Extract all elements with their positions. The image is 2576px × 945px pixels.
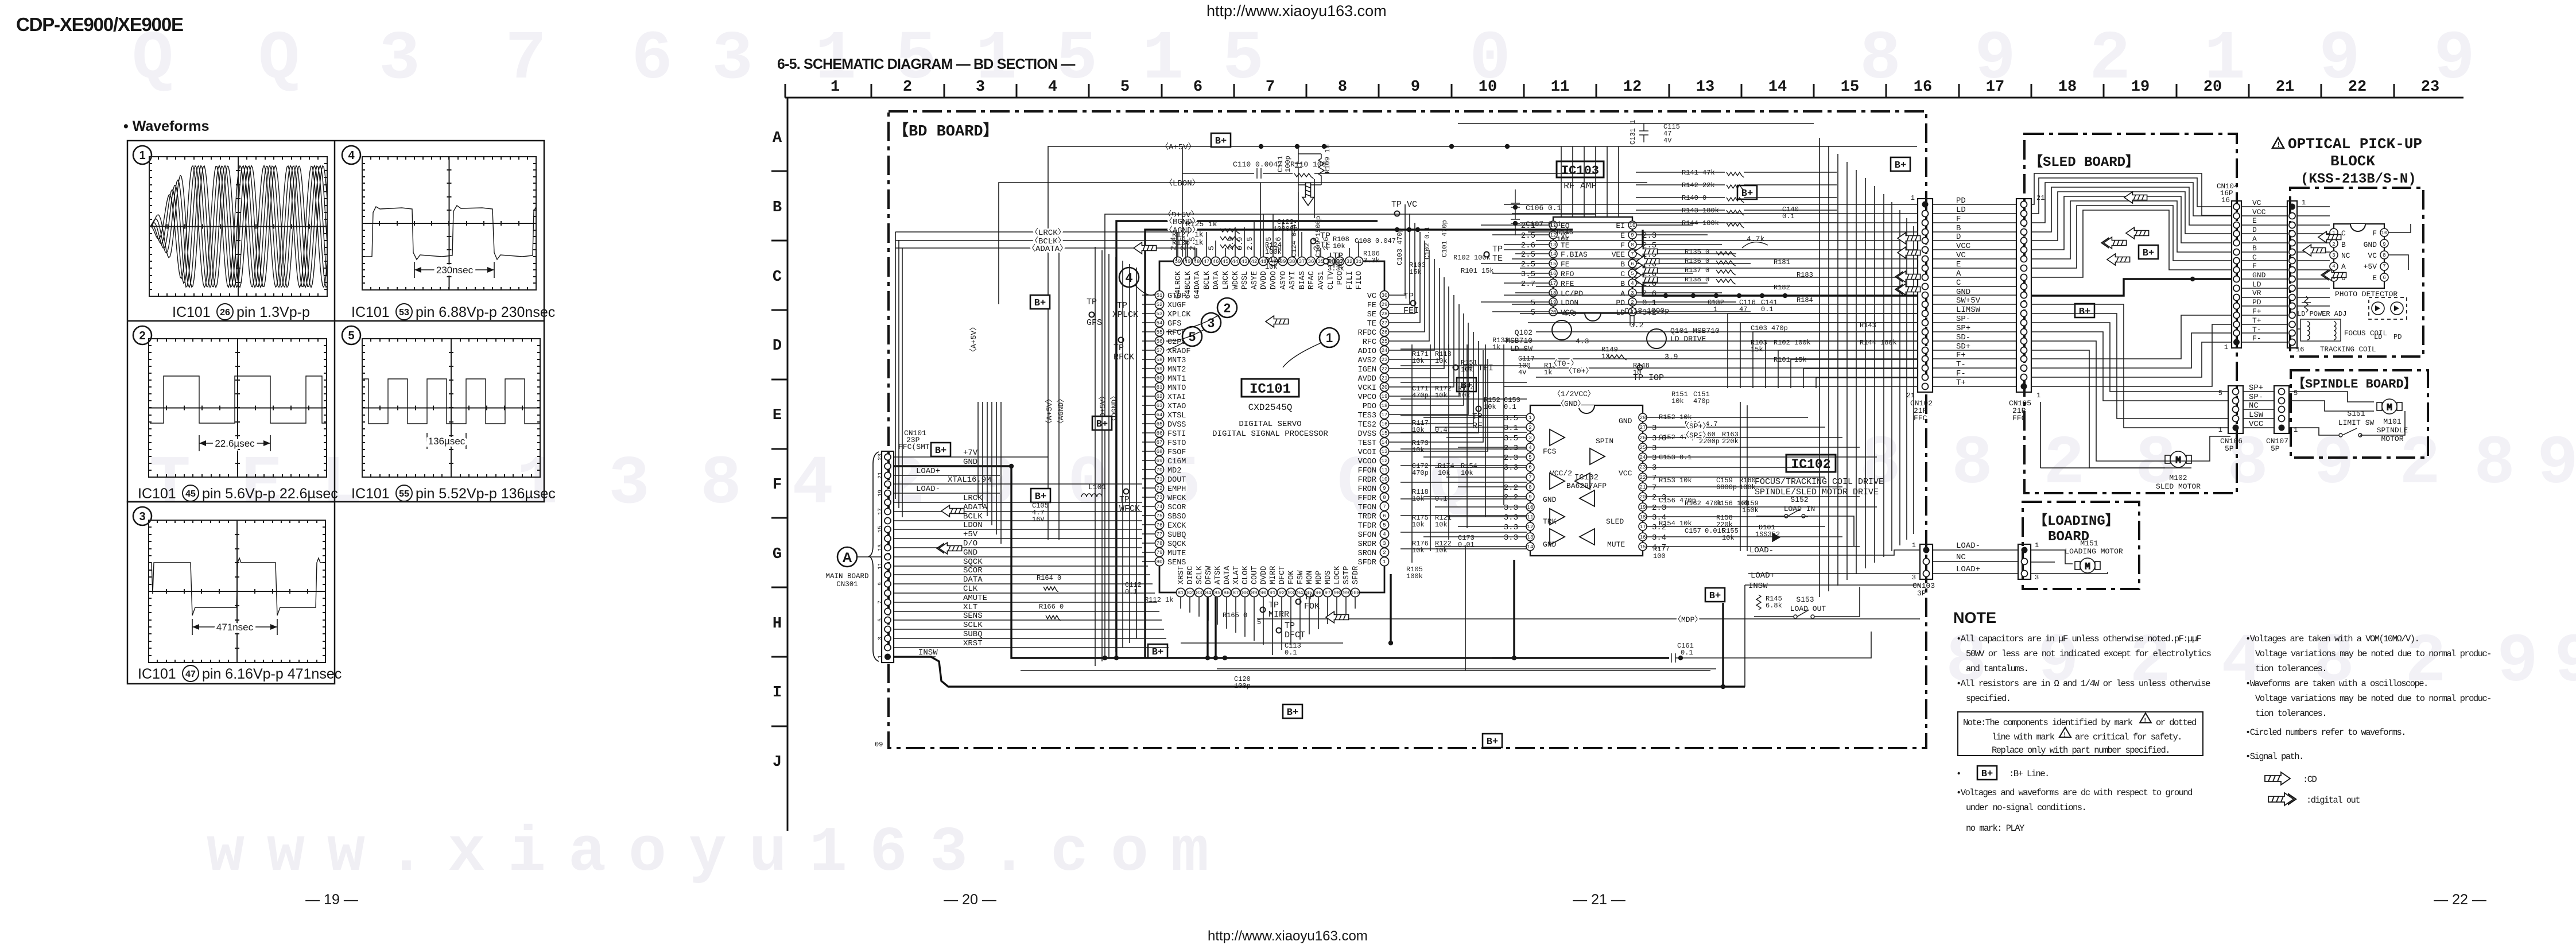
svg-text:50WV or less are not indicated: 50WV or less are not indicated except fo… <box>1966 649 2212 659</box>
svg-text:3: 3 <box>1528 435 1531 441</box>
svg-text:59: 59 <box>1157 366 1163 372</box>
svg-text:MON: MON <box>1306 571 1314 584</box>
svg-text:10k: 10k <box>1412 521 1425 529</box>
svg-text:B: B <box>773 199 782 216</box>
svg-text:11: 11 <box>1527 514 1534 520</box>
svg-text:21: 21 <box>878 472 884 479</box>
svg-text:BCLK: BCLK <box>1203 270 1212 289</box>
svg-text:14: 14 <box>1550 251 1557 257</box>
svg-text:SCLK: SCLK <box>1196 566 1204 584</box>
svg-text:R142 22k: R142 22k <box>1682 181 1715 189</box>
svg-text:17: 17 <box>1640 524 1646 530</box>
svg-text:o: o <box>629 818 666 889</box>
svg-text:1: 1 <box>2035 541 2039 549</box>
svg-text:SPINDLE/SLED MOTOR DRIVE: SPINDLE/SLED MOTOR DRIVE <box>1755 487 1879 497</box>
wire mesh: CN105 to sled (nested staircases) <box>2031 173 2232 468</box>
svg-text:70: 70 <box>1157 467 1163 473</box>
svg-text:TP: TP <box>1268 601 1279 610</box>
svg-text:SQCK: SQCK <box>963 557 983 567</box>
switch S151 limit <box>2339 428 2362 437</box>
svg-text:LOCK: LOCK <box>1333 566 1342 584</box>
svg-text:SQCK: SQCK <box>1167 540 1186 549</box>
svg-text:20: 20 <box>1550 309 1557 315</box>
svg-text:3.3: 3.3 <box>1504 504 1518 513</box>
svg-text:3: 3 <box>1383 541 1386 547</box>
svg-text:4: 4 <box>2332 264 2335 269</box>
svg-text:LOAD+: LOAD+ <box>1751 571 1775 580</box>
svg-text:3.3: 3.3 <box>1504 523 1518 532</box>
svg-text:SPINDLE: SPINDLE <box>2377 426 2408 435</box>
svg-text:91: 91 <box>1270 590 1276 596</box>
svg-text:E: E <box>1620 231 1625 240</box>
svg-text:10k: 10k <box>1671 397 1684 405</box>
svg-text:3.1: 3.1 <box>1504 424 1518 433</box>
svg-text:13: 13 <box>1527 535 1534 540</box>
svg-text:D: D <box>773 338 782 355</box>
svg-text:pin 5.6Vp-p 22.6µsec: pin 5.6Vp-p 22.6µsec <box>202 486 338 502</box>
svg-text:8: 8 <box>2383 253 2385 258</box>
svg-text:19: 19 <box>2131 79 2150 96</box>
svg-text:BCLK: BCLK <box>963 512 983 521</box>
svg-text:XTAI: XTAI <box>1167 393 1186 402</box>
svg-text:R109 1M: R109 1M <box>1324 145 1332 173</box>
svg-text:85: 85 <box>1215 590 1221 596</box>
svg-text:M101: M101 <box>2383 417 2401 426</box>
focus coil <box>2300 319 2341 341</box>
svg-text:A: A <box>1620 289 1625 298</box>
svg-text:47: 47 <box>1204 259 1210 265</box>
svg-text:WDCK: WDCK <box>1232 270 1240 289</box>
main board ref circle A <box>837 547 857 567</box>
svg-text:9: 9 <box>1631 233 1634 238</box>
svg-text:10k: 10k <box>1412 446 1425 454</box>
svg-text:92: 92 <box>1279 590 1285 596</box>
wire mesh: spindle wires <box>2289 392 2405 435</box>
svg-text:C131 1: C131 1 <box>1629 120 1637 145</box>
load wires <box>1745 550 1920 585</box>
svg-text:89: 89 <box>1251 590 1258 596</box>
svg-text:DATA: DATA <box>963 575 983 584</box>
svg-text:3.3: 3.3 <box>1504 533 1518 543</box>
svg-text:PCO: PCO <box>1336 271 1345 285</box>
svg-text:56: 56 <box>1157 339 1163 344</box>
svg-text:PDO: PDO <box>1363 402 1376 411</box>
svg-text:2.5: 2.5 <box>1246 237 1254 250</box>
svg-text:23: 23 <box>2421 79 2439 96</box>
svg-text:F: F <box>2252 262 2257 270</box>
svg-text:1: 1 <box>1326 331 1333 345</box>
svg-text:1: 1 <box>2218 426 2222 434</box>
svg-text:Q: Q <box>258 21 300 99</box>
svg-text:C102 0.1: C102 0.1 <box>1423 226 1431 260</box>
svg-text:4: 4 <box>348 149 355 162</box>
svg-text:VPCO: VPCO <box>1358 393 1376 402</box>
svg-text:100k: 100k <box>1739 483 1756 491</box>
svg-text:http://www.xiaoyu163.com: http://www.xiaoyu163.com <box>1206 2 1387 20</box>
svg-text:220k: 220k <box>1716 521 1733 529</box>
svg-text:2.3: 2.3 <box>1504 444 1518 453</box>
svg-text:9: 9 <box>2537 425 2576 504</box>
svg-text:LOAD OUT: LOAD OUT <box>1790 605 1826 613</box>
svg-text:•Signal path.: •Signal path. <box>2245 752 2303 762</box>
svg-text:R143: R143 <box>1860 322 1876 330</box>
svg-text:GND: GND <box>963 548 977 557</box>
svg-text:— 21 —: — 21 — <box>1573 892 1625 908</box>
svg-text:9: 9 <box>2497 623 2538 702</box>
svg-text:LD: LD <box>1616 308 1625 317</box>
wire mesh: CN101 rows <box>894 457 1169 657</box>
svg-text:13: 13 <box>878 544 884 551</box>
svg-text:AMUTE: AMUTE <box>963 594 987 603</box>
svg-text:6.8k: 6.8k <box>1766 602 1782 610</box>
svg-text:LDON: LDON <box>1561 299 1578 307</box>
svg-text:71: 71 <box>1157 477 1163 482</box>
diode D101 <box>1772 533 1780 542</box>
svg-text:47: 47 <box>185 669 196 679</box>
svg-text:2.4: 2.4 <box>1169 237 1178 250</box>
heavy routing lines <box>1722 603 1724 687</box>
svg-text:75: 75 <box>1157 513 1163 519</box>
svg-text:C108 0.047: C108 0.047 <box>1355 237 1396 245</box>
svg-text:10k: 10k <box>1435 357 1448 365</box>
waveform panel 2 <box>133 326 152 344</box>
transistor Q102 <box>1552 320 1572 340</box>
optical pick-up heading <box>2272 138 2284 148</box>
svg-text:2.5: 2.5 <box>1521 250 1535 260</box>
svg-text:1: 1 <box>1911 194 1915 202</box>
svg-text:T+: T+ <box>2252 316 2261 325</box>
svg-text:36: 36 <box>1308 259 1314 265</box>
B+ symbols <box>1211 133 1231 147</box>
svg-text:DVSS: DVSS <box>1167 421 1186 429</box>
svg-text:3: 3 <box>976 79 985 96</box>
svg-text:FSTO: FSTO <box>1167 439 1186 448</box>
svg-text:E: E <box>2372 274 2377 282</box>
svg-text:16: 16 <box>1550 271 1557 277</box>
svg-text:XRST: XRST <box>1177 566 1186 584</box>
svg-text:29: 29 <box>1382 302 1388 308</box>
svg-text:FOK: FOK <box>1287 570 1296 584</box>
svg-text:5: 5 <box>1120 79 1130 96</box>
svg-text:ATSK: ATSK <box>1214 566 1223 584</box>
svg-text:09: 09 <box>875 741 883 749</box>
svg-text:25: 25 <box>1640 445 1646 451</box>
svg-text:0.1: 0.1 <box>1782 212 1795 220</box>
svg-text:•All resistors are in Ω and 1/: •All resistors are in Ω and 1/4W or less… <box>1956 679 2210 689</box>
svg-text:9: 9 <box>1383 486 1386 491</box>
svg-text:LDON: LDON <box>963 521 983 530</box>
connector CN107 <box>2274 386 2289 433</box>
svg-text:【SPINDLE BOARD】: 【SPINDLE BOARD】 <box>2292 377 2416 392</box>
svg-text:LOAD-: LOAD- <box>1749 546 1774 555</box>
svg-text:10k: 10k <box>1458 392 1471 400</box>
svg-text:VCC: VCC <box>1619 469 1632 478</box>
svg-text:23: 23 <box>1382 357 1388 363</box>
svg-text:136µsec: 136µsec <box>428 436 465 447</box>
svg-text:A: A <box>773 130 782 147</box>
svg-text:8: 8 <box>700 446 742 524</box>
svg-text:DATA: DATA <box>1223 566 1232 584</box>
svg-text:10: 10 <box>1382 477 1388 482</box>
svg-text:DVDD: DVDD <box>1260 566 1268 584</box>
svg-text::B+ Line.: :B+ Line. <box>2009 769 2049 779</box>
svg-text:MUTE: MUTE <box>1167 549 1186 558</box>
svg-text:!: ! <box>2276 141 2281 149</box>
svg-text:MD2: MD2 <box>1167 467 1181 475</box>
svg-text:M: M <box>2387 402 2392 413</box>
svg-text:20: 20 <box>2203 79 2222 96</box>
svg-text:97: 97 <box>1325 590 1331 596</box>
svg-text:XPLCK: XPLCK <box>1167 311 1191 319</box>
svg-text:1: 1 <box>2302 199 2306 207</box>
svg-text:28: 28 <box>1382 311 1388 317</box>
svg-text:6: 6 <box>1528 464 1531 470</box>
wire GND bold from CN101 <box>894 466 1669 658</box>
svg-text:R144 180k: R144 180k <box>1682 219 1719 227</box>
svg-text:SRON: SRON <box>1358 549 1376 558</box>
svg-text:EMPH: EMPH <box>1167 485 1186 494</box>
svg-text:17: 17 <box>878 508 884 515</box>
svg-text:2: 2 <box>2399 425 2441 504</box>
svg-text:15: 15 <box>1382 431 1388 436</box>
svg-text:IC101: IC101 <box>351 486 390 502</box>
svg-text:18: 18 <box>1382 403 1388 409</box>
svg-text:FRDR: FRDR <box>1358 476 1376 485</box>
svg-text:a: a <box>568 818 606 889</box>
svg-text:5: 5 <box>348 330 354 342</box>
svg-text:3: 3 <box>1652 454 1656 463</box>
svg-text:IC101: IC101 <box>172 304 211 320</box>
svg-text:230nsec: 230nsec <box>436 265 474 276</box>
svg-text:2.5: 2.5 <box>1521 231 1535 241</box>
svg-text:SCLK: SCLK <box>963 621 983 630</box>
svg-text:FOCUS COIL: FOCUS COIL <box>2344 330 2387 338</box>
svg-text:19: 19 <box>1382 394 1388 400</box>
svg-text:72: 72 <box>1157 486 1163 491</box>
svg-text:FFON: FFON <box>1358 467 1376 475</box>
svg-text:R138 0: R138 0 <box>1685 276 1709 284</box>
svg-text:RFDC: RFDC <box>1358 329 1376 338</box>
svg-text:B+: B+ <box>1895 160 1906 171</box>
svg-text:+5V: +5V <box>963 530 978 539</box>
svg-text:〈A+5V〉: 〈A+5V〉 <box>969 323 978 356</box>
svg-text:1: 1 <box>1383 559 1386 565</box>
svg-text:24: 24 <box>1640 455 1646 460</box>
svg-text:B+: B+ <box>1981 769 1993 780</box>
svg-text:0.01: 0.01 <box>1458 541 1475 549</box>
svg-text:100k: 100k <box>1406 572 1423 580</box>
wire GND bold sled <box>2031 279 2232 296</box>
svg-text:TFON: TFON <box>1358 504 1376 512</box>
svg-text:MNT1: MNT1 <box>1167 375 1186 384</box>
svg-text:10k: 10k <box>1435 521 1448 529</box>
svg-text:B+: B+ <box>1152 647 1163 658</box>
svg-text:8: 8 <box>2135 425 2177 504</box>
svg-text:5: 5 <box>2218 389 2222 397</box>
BD BOARD border <box>889 111 1926 748</box>
svg-text:2.3: 2.3 <box>1652 504 1666 513</box>
svg-text:10k: 10k <box>1435 547 1448 555</box>
svg-text:6: 6 <box>1193 79 1202 96</box>
svg-text:A: A <box>2341 262 2346 271</box>
svg-text:22: 22 <box>2348 79 2366 96</box>
svg-text:E: E <box>241 446 282 524</box>
svg-text:VC: VC <box>1367 292 1376 301</box>
connector CN103 <box>1920 544 1933 579</box>
svg-text:B+: B+ <box>1034 298 1046 309</box>
svg-text:〈T0+〉: 〈T0+〉 <box>1565 367 1593 375</box>
svg-text:ASYO: ASYO <box>1279 271 1288 289</box>
svg-text:〈A+5V〉: 〈A+5V〉 <box>1045 395 1054 428</box>
svg-text:3: 3 <box>1912 574 1916 582</box>
svg-text:86: 86 <box>1224 590 1230 596</box>
connector CN105 <box>2016 199 2031 392</box>
svg-text:1: 1 <box>517 446 558 524</box>
svg-text:•All capacitors are in µF unle: •All capacitors are in µF unless otherwi… <box>1956 634 2202 644</box>
rotated bus tags <box>969 323 1119 428</box>
svg-text:57: 57 <box>1157 348 1163 354</box>
svg-text:LOAD-: LOAD- <box>916 485 940 494</box>
svg-text:no mark: PLAY: no mark: PLAY <box>1966 823 2025 834</box>
wire LBON bus <box>999 183 1647 304</box>
svg-text:10k: 10k <box>1461 469 1473 477</box>
svg-text:5: 5 <box>1531 299 1535 308</box>
svg-text:5: 5 <box>2294 389 2298 397</box>
svg-text:B+: B+ <box>935 446 946 456</box>
svg-text:50: 50 <box>1175 259 1181 265</box>
svg-text:are critical for safety.: are critical for safety. <box>2075 732 2182 742</box>
svg-text:FRON: FRON <box>1358 485 1376 494</box>
svg-text:Replace only with part number: Replace only with part number specified. <box>1992 745 2170 756</box>
svg-text:1: 1 <box>1912 541 1916 549</box>
svg-text:E: E <box>2252 216 2257 225</box>
svg-text:2.2: 2.2 <box>1504 493 1518 502</box>
svg-text:LOAD+: LOAD+ <box>916 467 940 476</box>
svg-text:2.6: 2.6 <box>1274 237 1283 250</box>
svg-text:VCKI: VCKI <box>1358 384 1376 393</box>
svg-text:220k: 220k <box>1722 437 1739 446</box>
svg-text:6-5. SCHEMATIC DIAGRAM — BD SE: 6-5. SCHEMATIC DIAGRAM — BD SECTION — <box>777 56 1075 72</box>
waveform panel frame <box>127 141 544 684</box>
svg-text:B+: B+ <box>1487 737 1498 748</box>
svg-text:C: C <box>2341 229 2346 238</box>
svg-text:1: 1 <box>2036 392 2040 400</box>
svg-text:• Waveforms: • Waveforms <box>123 118 210 134</box>
svg-text:MNT3: MNT3 <box>1167 357 1186 365</box>
svg-text:•: • <box>1956 769 1961 779</box>
wire DGND bus <box>1116 221 1378 658</box>
svg-text:MAIN BOARD: MAIN BOARD <box>825 572 868 580</box>
svg-text:470p: 470p <box>1412 469 1429 477</box>
svg-text:0.1: 0.1 <box>1761 305 1774 313</box>
svg-text:IGEN: IGEN <box>1358 366 1376 374</box>
svg-text:11: 11 <box>878 563 884 570</box>
svg-text:10k: 10k <box>1722 534 1735 542</box>
svg-text:0.1: 0.1 <box>1504 403 1516 411</box>
svg-text:L: L <box>321 446 363 524</box>
wire mesh: left risers <box>895 232 1001 544</box>
svg-text:B+: B+ <box>1215 136 1227 147</box>
svg-text:RFC: RFC <box>1363 338 1376 347</box>
svg-text:F-: F- <box>2252 334 2261 343</box>
svg-text:65: 65 <box>1157 421 1163 427</box>
svg-text:SENS: SENS <box>963 611 983 621</box>
svg-text:0.1: 0.1 <box>1285 649 1297 657</box>
wire mesh: fan above IC101 <box>1178 146 1359 257</box>
svg-text:64LRCK: 64LRCK <box>1174 270 1183 299</box>
component value labels (texture) <box>1125 218 1897 690</box>
IC103 body <box>1553 217 1632 313</box>
svg-text:16: 16 <box>1640 535 1646 540</box>
svg-text:17: 17 <box>1550 281 1557 286</box>
svg-text:26: 26 <box>1382 330 1388 335</box>
svg-text:100p: 100p <box>1234 682 1251 690</box>
svg-text:m: m <box>1171 818 1209 889</box>
svg-text:7: 7 <box>878 601 884 604</box>
svg-text:u: u <box>749 818 787 889</box>
svg-text:10k: 10k <box>1484 403 1496 411</box>
svg-text:XLT: XLT <box>963 603 977 612</box>
wire mesh: right columns <box>1728 138 1918 597</box>
svg-text:2: 2 <box>2089 21 2131 99</box>
svg-text:〈ADATA〉: 〈ADATA〉 <box>1027 244 1068 254</box>
svg-text:CLTV: CLTV <box>1327 270 1336 289</box>
svg-text:DIGITAL SIGNAL PROCESSOR: DIGITAL SIGNAL PROCESSOR <box>1212 429 1328 439</box>
svg-text:under no-signal conditions.: under no-signal conditions. <box>1966 803 2086 813</box>
wire stubs IC101 left pins <box>1142 295 1155 561</box>
svg-text:17: 17 <box>1382 412 1388 418</box>
op-amps in IC102 <box>1550 429 1565 446</box>
svg-text:12: 12 <box>1623 79 1642 96</box>
svg-text:12: 12 <box>1382 458 1388 464</box>
svg-text:Voltage variations may be note: Voltage variations may be noted due to n… <box>2255 694 2491 704</box>
svg-text:8: 8 <box>2474 425 2515 504</box>
svg-text:150k: 150k <box>1742 506 1759 514</box>
IC101 right pins <box>1358 291 1389 567</box>
svg-text:6800p: 6800p <box>1716 483 1737 491</box>
svg-text:DIGITAL SERVO: DIGITAL SERVO <box>1239 420 1301 429</box>
svg-text:8: 8 <box>1952 425 1993 504</box>
svg-text:〈1/2VCC〉: 〈1/2VCC〉 <box>1553 390 1595 398</box>
svg-text:470p: 470p <box>1693 397 1710 405</box>
svg-text:D: D <box>2252 226 2257 234</box>
connector optical 16P <box>2287 201 2297 348</box>
waveform panel 3 <box>133 507 152 525</box>
LD power adj <box>2302 296 2311 312</box>
svg-text:R125 1k: R125 1k <box>1186 220 1217 228</box>
svg-text:10k: 10k <box>1265 263 1278 271</box>
svg-text:27: 27 <box>1382 320 1388 326</box>
svg-text:.: . <box>387 818 425 889</box>
svg-text:MOTOR: MOTOR <box>2381 435 2403 443</box>
svg-text:2.6: 2.6 <box>1521 241 1535 250</box>
svg-text:55: 55 <box>1157 330 1163 335</box>
svg-text:1: 1 <box>139 149 145 162</box>
svg-text:CN301: CN301 <box>836 580 858 588</box>
svg-text:AVDD: AVDD <box>1358 375 1376 384</box>
svg-text:LOAD+: LOAD+ <box>1956 565 1980 574</box>
op-amp/IC IC101 body <box>1159 261 1384 592</box>
svg-text:VEE: VEE <box>1612 250 1625 259</box>
svg-text:R144 180k: R144 180k <box>1860 339 1897 347</box>
svg-text:46: 46 <box>1213 259 1219 265</box>
svg-text:1: 1 <box>1142 21 1184 99</box>
svg-text:【LOADING】: 【LOADING】 <box>2034 513 2119 529</box>
svg-text:Voltage variations may be note: Voltage variations may be noted due to n… <box>2255 649 2491 659</box>
wire D+5V bus <box>1105 214 1596 658</box>
svg-text:PD: PD <box>1616 299 1625 307</box>
svg-text:XTAO: XTAO <box>1167 402 1186 411</box>
